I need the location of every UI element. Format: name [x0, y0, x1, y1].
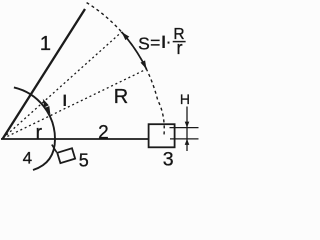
- dashed radial to upper arc arrow: [7, 32, 122, 135]
- label l: [64, 95, 66, 106]
- svg-text:=: =: [150, 32, 160, 52]
- big dashed arc radius R: [87, 3, 165, 136]
- line 2 (horizontal axis): [1, 138, 149, 140]
- arrowhead l upper: [43, 99, 49, 108]
- box 3 (screen/scale): [149, 124, 175, 147]
- upper tick (spot level): [170, 127, 199, 129]
- lamp 5 (rotated rectangle): [57, 148, 75, 163]
- svg-text:3: 3: [163, 148, 174, 170]
- svg-text:2: 2: [98, 122, 109, 143]
- arrowhead l lower: [45, 106, 51, 115]
- tick from scale arc to lamp: [52, 145, 57, 153]
- arrowhead S upper: [122, 32, 130, 40]
- svg-text:S: S: [138, 33, 150, 53]
- svg-text:4: 4: [23, 148, 32, 167]
- line 1 (lever/mirror arm): [3, 9, 86, 139]
- arrowhead S lower: [141, 60, 147, 69]
- arrowhead H up: [185, 139, 190, 145]
- svg-text:·: ·: [166, 32, 172, 52]
- small arc radius r with lower scale arc 4: [14, 87, 55, 170]
- arrowhead H down: [185, 122, 190, 128]
- svg-text:H: H: [180, 91, 190, 107]
- solid arc segment S: [122, 32, 147, 69]
- svg-text:R: R: [114, 86, 128, 108]
- dimension vertical line H: [186, 107, 188, 152]
- svg-text:5: 5: [79, 150, 89, 170]
- svg-text:r: r: [177, 38, 183, 58]
- lower tick (axis level): [170, 138, 199, 140]
- dashed radial R to lower arc arrow: [7, 69, 146, 136]
- svg-text:r: r: [36, 122, 43, 143]
- svg-text:1: 1: [40, 33, 51, 55]
